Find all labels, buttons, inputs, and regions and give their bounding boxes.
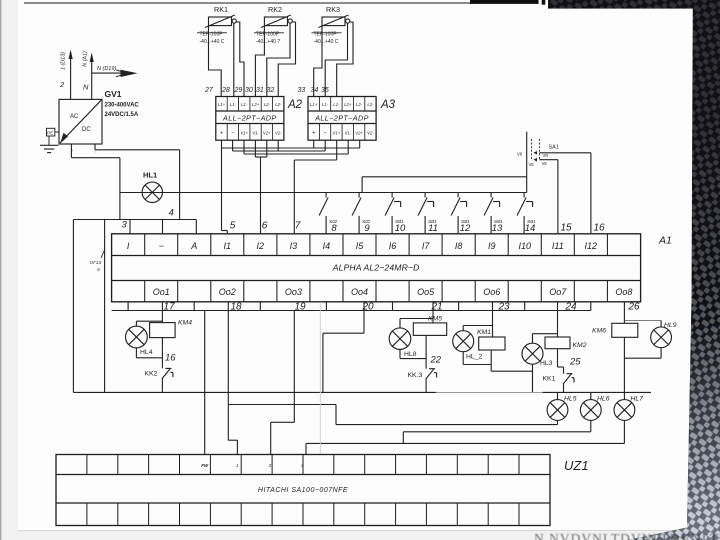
svg-text:29: 29 (234, 87, 243, 94)
svg-text:N (A1): N (A1) (83, 51, 89, 67)
wire 18 to terminal 1 (227, 302, 229, 440)
svg-text:I5: I5 (356, 241, 365, 251)
svg-text:I10: I10 (518, 241, 531, 251)
svg-text:19: 19 (294, 302, 306, 313)
svg-text:KM5: KM5 (428, 316, 442, 323)
svg-text:L2+: L2+ (344, 102, 352, 107)
switch SB1 input 11 (418, 193, 434, 234)
adapter module A2 (216, 97, 284, 141)
wire rail minus (71, 157, 120, 159)
svg-text:AC: AC (70, 114, 79, 120)
svg-text:15: 15 (560, 223, 572, 234)
svg-text:5: 5 (230, 221, 236, 232)
svg-text:V1+: V1+ (333, 131, 341, 136)
svg-text:22: 22 (430, 355, 442, 366)
svg-text:16: 16 (593, 223, 605, 234)
switch S02 input 9 (352, 193, 361, 234)
switch SB1 input 12 (451, 193, 467, 234)
RTD sensor RK2 (261, 15, 292, 28)
svg-text:23: 23 (497, 302, 510, 313)
wire 20 (363, 302, 365, 333)
svg-text:I2: I2 (257, 241, 265, 251)
svg-text:UZ1: UZ1 (564, 458, 589, 473)
svg-text:Oo2: Oo2 (219, 287, 236, 297)
svg-text:ОГ13: ОГ13 (90, 260, 102, 266)
svg-text:21: 21 (430, 302, 442, 313)
svg-text:L2-: L2- (264, 102, 271, 107)
svg-text:V2-: V2- (275, 131, 282, 136)
wire jog h3 (244, 153, 348, 155)
relay KM1 branch (463, 302, 532, 371)
wire 5 to input I1 (221, 140, 223, 230)
svg-text:HL3: HL3 (540, 360, 553, 367)
selector switch SA1 (527, 132, 591, 193)
svg-text:SA1: SA1 (549, 145, 559, 151)
svg-text:KM4: KM4 (178, 320, 192, 327)
lamp HL6 (580, 392, 601, 420)
svg-text:PE: PE (47, 130, 53, 135)
lamp HL2 (453, 331, 474, 352)
svg-text:HL1: HL1 (143, 171, 157, 180)
lamp HL8 (389, 328, 411, 350)
svg-text:-40...+40 С: -40...+40 С (314, 39, 339, 45)
svg-text:3: 3 (122, 220, 128, 231)
pushbutton switches above inputs I4-I10 (319, 193, 532, 234)
svg-text:35: 35 (321, 87, 329, 94)
svg-text:V1-: V1- (252, 131, 259, 136)
svg-text:Oo3: Oo3 (285, 287, 302, 297)
switch SB1 input 13 (484, 193, 500, 234)
svg-text:12: 12 (460, 223, 471, 234)
relay KM5 branch (400, 302, 447, 369)
svg-text:2: 2 (59, 80, 65, 89)
svg-text:I8: I8 (455, 241, 463, 251)
svg-text:Oo8: Oo8 (615, 287, 632, 297)
svg-text:L2-: L2- (367, 102, 374, 107)
svg-text:1 (D13): 1 (D13) (61, 52, 67, 70)
svg-text:V1+: V1+ (240, 131, 248, 136)
svg-text:HL9: HL9 (664, 322, 677, 329)
svg-text:VR: VR (543, 153, 549, 158)
svg-text:18: 18 (230, 302, 242, 313)
svg-text:KM6: KM6 (592, 328, 606, 335)
switch S02 input 8 (319, 193, 328, 234)
wire 19 to terminal 2 (293, 311, 295, 423)
svg-text:N: N (83, 83, 89, 92)
wire 16 (590, 153, 592, 234)
svg-text:V2+: V2+ (355, 131, 363, 136)
switch SB1 input 10 (385, 193, 401, 234)
lamp HL4 (125, 326, 147, 348)
svg-text:L1-: L1- (241, 102, 248, 107)
wiring band below adapters (222, 140, 360, 234)
svg-text:DC: DC (82, 127, 91, 133)
svg-text:RK3: RK3 (326, 5, 340, 14)
svg-text:27: 27 (204, 87, 214, 94)
svg-text:N (D19): N (D19) (97, 66, 116, 72)
svg-text:Oo5: Oo5 (417, 287, 435, 297)
svg-text:2: 2 (268, 463, 272, 468)
svg-text:14: 14 (525, 223, 536, 234)
svg-text:L2-: L2- (275, 102, 282, 107)
svg-text:L2+: L2+ (252, 102, 260, 107)
lamp bus wire (120, 192, 527, 194)
svg-text:V8: V8 (517, 152, 523, 157)
svg-text:230-400VAC: 230-400VAC (105, 103, 140, 109)
svg-text:Oo6: Oo6 (483, 287, 500, 297)
svg-text:11: 11 (428, 223, 438, 234)
svg-text:KK2: KK2 (145, 371, 158, 378)
svg-text:17: 17 (163, 302, 175, 313)
svg-text:26: 26 (627, 302, 640, 313)
svg-text:HL8: HL8 (404, 351, 417, 358)
lamp HL7 (614, 400, 635, 421)
svg-text:25: 25 (569, 357, 581, 368)
wire from rail down (119, 158, 121, 220)
svg-text:A3: A3 (380, 99, 396, 111)
svg-text:6: 6 (262, 221, 268, 232)
relay KM6 branch (612, 302, 661, 400)
svg-text:20: 20 (361, 302, 374, 313)
svg-text:ALL−2PT−ADP: ALL−2PT−ADP (222, 113, 277, 122)
ground (40, 145, 59, 152)
svg-text:16: 16 (165, 353, 176, 364)
svg-text:KK.3: KK.3 (408, 372, 423, 379)
svg-text:L1+: L1+ (310, 102, 318, 107)
24V rails from GV1 (71, 144, 179, 220)
A2 V terminal stubs (243, 140, 245, 154)
relay KM2 branch (545, 302, 570, 374)
wire jog h1 (222, 147, 360, 149)
svg-text:L1-: L1- (230, 102, 237, 107)
wire HL7 to terminal 3 (623, 420, 625, 443)
svg-text:GV1: GV1 (105, 89, 122, 99)
inverter UZ1 HITACHI (56, 455, 550, 526)
wire A2- stub (232, 140, 234, 151)
svg-text:I11: I11 (552, 241, 564, 251)
svg-text:KM2: KM2 (573, 342, 587, 349)
svg-text:I4: I4 (323, 241, 331, 251)
PLC A1 ALPHA AL2-24MR-D (112, 234, 641, 302)
lower common bus (73, 391, 651, 393)
svg-text:31: 31 (256, 87, 264, 94)
svg-text:L1-: L1- (333, 102, 340, 107)
RK1 leads (209, 22, 245, 97)
A3 terminal stubs (313, 140, 315, 148)
svg-text:I9: I9 (488, 241, 496, 251)
svg-text:Oo4: Oo4 (351, 287, 368, 297)
RTD sensor RK1 (205, 15, 236, 28)
svg-text:V1-: V1- (344, 131, 351, 136)
svg-text:HL6: HL6 (597, 396, 610, 403)
wire rail plus (95, 149, 180, 151)
wire jog h2 (233, 150, 326, 152)
thermal contact KK3 (426, 369, 437, 393)
wire jog h5 (294, 159, 336, 161)
svg-text:L1+: L1+ (218, 102, 226, 107)
svg-text:V2+: V2+ (263, 131, 271, 136)
svg-text:-40...+40 С: -40...+40 С (200, 39, 225, 45)
left column wires (73, 158, 196, 393)
svg-text:7: 7 (295, 221, 301, 232)
RTD sensor RK3 (319, 15, 350, 28)
thermal contact KK1 (563, 374, 574, 393)
svg-text:34: 34 (311, 87, 319, 94)
svg-text:I6: I6 (389, 241, 397, 251)
RK2 leads (255, 22, 295, 97)
PE terminal (47, 128, 60, 145)
carbon background right side (548, 0, 720, 540)
lamp HL3 (522, 334, 558, 393)
wire over switches (362, 177, 527, 193)
svg-text:HL7: HL7 (631, 396, 644, 403)
output common bus line (112, 302, 591, 311)
svg-text:4: 4 (169, 208, 174, 219)
wire 15 (557, 160, 559, 234)
svg-text:L2-: L2- (356, 102, 363, 107)
wire rail drop (179, 150, 181, 220)
svg-text:KM1: KM1 (477, 329, 491, 336)
svg-text:28: 28 (221, 87, 230, 94)
svg-text:ALPHA AL2−24MR−D: ALPHA AL2−24MR−D (332, 263, 420, 273)
wire FW (204, 311, 206, 455)
svg-text:3: 3 (97, 267, 100, 273)
wire HL6 loop (590, 420, 592, 431)
svg-text:8: 8 (331, 223, 337, 234)
scan top edge line (24, 2, 478, 4)
svg-text:24: 24 (564, 302, 577, 313)
svg-text:A2: A2 (287, 99, 303, 111)
svg-text:A: A (190, 241, 197, 251)
wires to inverter UZ1 (205, 302, 625, 455)
svg-text:33: 33 (298, 87, 306, 94)
wire N (D19) branch arrow (92, 70, 138, 77)
lamp HL9 (651, 327, 672, 348)
svg-text:Oo1: Oo1 (153, 287, 170, 297)
RK3 leads (314, 22, 353, 97)
svg-text:10: 10 (395, 223, 406, 234)
svg-text:24VDC/1.5A: 24VDC/1.5A (105, 112, 139, 118)
svg-text:I12: I12 (585, 241, 598, 251)
lamp HL5 (547, 392, 568, 420)
svg-text:HL_2: HL_2 (466, 354, 482, 361)
wire jog h4 (255, 156, 266, 158)
svg-text:L1-: L1- (322, 102, 329, 107)
adapter module A3 (308, 97, 376, 141)
svg-text:RK1: RK1 (214, 5, 228, 14)
svg-text:KK1: KK1 (543, 376, 556, 383)
svg-text:RK2: RK2 (268, 5, 282, 14)
svg-text:30: 30 (245, 87, 253, 94)
svg-text:Oo7: Oo7 (549, 287, 567, 297)
svg-text:HL4: HL4 (140, 349, 153, 356)
wire 7 to input I3 (293, 160, 295, 234)
output wire numbers (163, 302, 640, 313)
svg-text:I1: I1 (224, 241, 232, 251)
paper fold line (319, 302, 321, 455)
svg-text:-40...+40 ?: -40...+40 ? (256, 39, 280, 45)
wire N arrow (90, 53, 94, 100)
svg-text:V8: V8 (529, 162, 535, 167)
svg-text:9: 9 (364, 223, 370, 234)
svg-text:−: − (159, 241, 164, 251)
svg-text:V9: V9 (542, 161, 548, 166)
svg-text:I3: I3 (290, 241, 298, 251)
switch SB1 input 14 (517, 193, 533, 234)
power supply GV1 (59, 99, 102, 144)
svg-text:A1: A1 (658, 235, 672, 247)
svg-text:V2-: V2- (367, 131, 374, 136)
svg-text:13: 13 (492, 223, 503, 234)
svg-text:HITACHI SA100−007NFE: HITACHI SA100−007NFE (258, 487, 348, 494)
svg-text:N NVDVNLTDVNLTDVNLTDVNL: N NVDVNLTDVNLTDVNLTDVNL (534, 531, 720, 540)
wire 6 to input I2 (260, 157, 262, 234)
thermal contact KK2 (162, 368, 173, 392)
lamp HL1 (142, 182, 162, 202)
wire HL5 loop (228, 404, 336, 406)
wire L1 phase arrow (69, 50, 73, 100)
svg-text:FW: FW (201, 463, 209, 468)
svg-text:ALL−2PT−ADP: ALL−2PT−ADP (314, 113, 369, 122)
svg-text:32: 32 (267, 87, 275, 94)
relay KM4 branch (136, 302, 175, 369)
wire jog bus (73, 219, 196, 221)
svg-text:I7: I7 (422, 241, 431, 251)
svg-text:HL5: HL5 (564, 396, 577, 403)
